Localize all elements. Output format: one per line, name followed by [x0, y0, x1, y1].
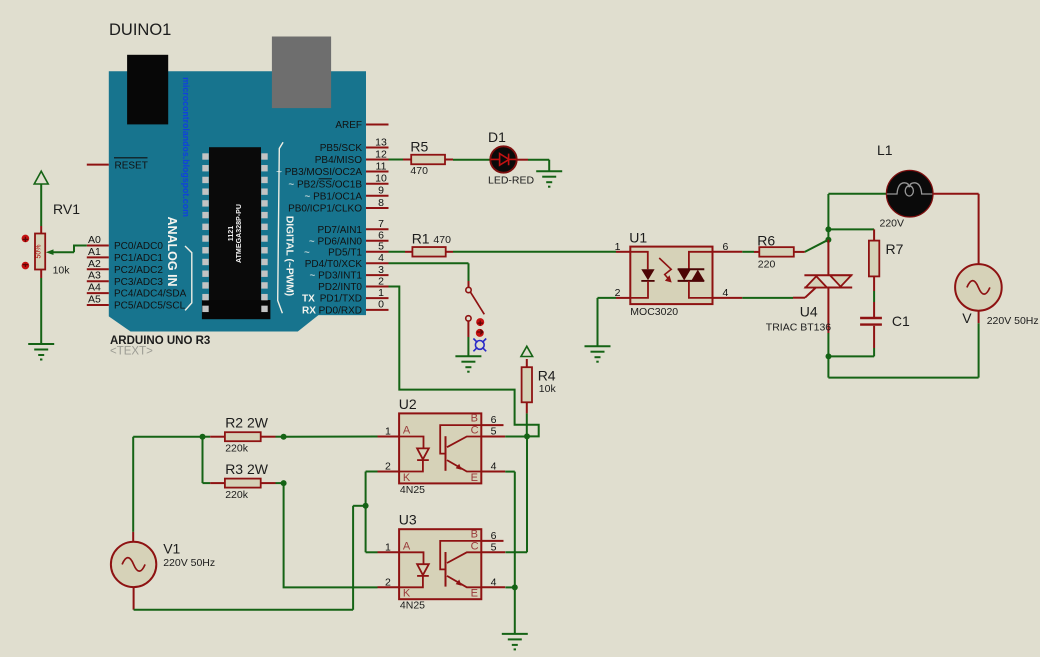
svg-text:C: C: [471, 540, 479, 552]
svg-text:A2: A2: [88, 258, 101, 270]
svg-text:microcontrolandos.blogspot.com: microcontrolandos.blogspot.com: [181, 77, 191, 217]
svg-text:ANALOG IN: ANALOG IN: [165, 216, 179, 286]
svg-text:R2 2W: R2 2W: [225, 415, 269, 431]
svg-text:1: 1: [385, 426, 391, 438]
svg-text:R3 2W: R3 2W: [225, 461, 269, 477]
svg-text:470: 470: [410, 165, 428, 177]
svg-text:2: 2: [385, 576, 391, 588]
svg-text:4: 4: [491, 576, 497, 588]
svg-text:220V: 220V: [880, 218, 905, 230]
svg-text:RESET: RESET: [115, 161, 148, 172]
svg-text:RV1: RV1: [53, 201, 80, 217]
svg-text:B: B: [471, 529, 478, 541]
svg-text:10: 10: [375, 173, 387, 185]
svg-text:PC5/ADC5/SCL: PC5/ADC5/SCL: [114, 301, 186, 312]
svg-text:A3: A3: [88, 270, 101, 282]
svg-text:4: 4: [378, 252, 384, 264]
svg-text:6: 6: [491, 530, 497, 542]
svg-text:~ PD6/AIN0: ~ PD6/AIN0: [309, 236, 363, 247]
svg-text:PD7/AIN1: PD7/AIN1: [318, 225, 363, 236]
svg-text:PB0/ICP1/CLKO: PB0/ICP1/CLKO: [288, 204, 362, 215]
svg-text:TX: TX: [302, 294, 315, 305]
svg-text:PC3/ADC3: PC3/ADC3: [114, 277, 163, 288]
svg-text:11: 11: [376, 160, 387, 172]
svg-text:PD2/INT0: PD2/INT0: [318, 282, 362, 293]
svg-text:470: 470: [433, 234, 451, 246]
svg-text:3: 3: [378, 264, 384, 276]
svg-text:A4: A4: [88, 282, 101, 294]
svg-text:PD1/TXD: PD1/TXD: [320, 294, 362, 305]
svg-text:MOC3020: MOC3020: [630, 306, 678, 318]
svg-text:5: 5: [491, 542, 497, 554]
svg-text:DUINO1: DUINO1: [109, 21, 171, 39]
svg-text:U4: U4: [800, 303, 818, 319]
svg-text:DIGITAL (~PWM): DIGITAL (~PWM): [284, 216, 295, 296]
svg-text:<TEXT>: <TEXT>: [110, 346, 153, 358]
svg-text:1121: 1121: [227, 226, 235, 241]
svg-text:6: 6: [723, 241, 729, 253]
svg-text:C1: C1: [892, 313, 910, 329]
svg-text:A5: A5: [88, 294, 101, 306]
svg-text:5: 5: [491, 426, 497, 438]
svg-text:PC0/ADC0: PC0/ADC0: [114, 241, 163, 252]
svg-text:U3: U3: [399, 512, 417, 528]
svg-text:TRIAC BT136: TRIAC BT136: [766, 321, 832, 333]
svg-text:ATMEGA328P-PU: ATMEGA328P-PU: [235, 204, 243, 263]
svg-text:A0: A0: [88, 234, 101, 246]
svg-text:PD0/RXD: PD0/RXD: [319, 306, 362, 317]
svg-text:1: 1: [378, 287, 384, 299]
svg-text:220V 50Hz: 220V 50Hz: [987, 315, 1039, 327]
svg-text:5: 5: [378, 241, 384, 253]
svg-text:R1: R1: [412, 231, 430, 247]
svg-text:D1: D1: [488, 129, 506, 145]
svg-text:220k: 220k: [225, 443, 249, 455]
svg-text:4N25: 4N25: [400, 600, 425, 612]
svg-text:V1: V1: [163, 541, 180, 557]
svg-text:220k: 220k: [225, 489, 249, 501]
svg-text:1: 1: [385, 541, 391, 553]
svg-text:PB5/SCK: PB5/SCK: [320, 143, 363, 154]
svg-text:B: B: [471, 413, 478, 425]
svg-text:9: 9: [378, 185, 384, 197]
svg-text:4: 4: [491, 461, 497, 473]
svg-text:R4: R4: [538, 367, 556, 383]
svg-text:R7: R7: [886, 241, 904, 257]
svg-text:A1: A1: [88, 246, 101, 258]
svg-text:K: K: [403, 588, 411, 600]
svg-text:6: 6: [491, 414, 497, 426]
svg-text:12: 12: [375, 148, 387, 160]
svg-text:13: 13: [375, 136, 387, 148]
svg-text:~ PB3/MOSI/OC2A: ~ PB3/MOSI/OC2A: [276, 167, 362, 178]
svg-text:L1: L1: [877, 142, 893, 158]
svg-text:U1: U1: [629, 230, 647, 246]
svg-text:4: 4: [723, 287, 729, 299]
svg-text:1: 1: [615, 241, 621, 253]
svg-text:~: ~: [304, 247, 310, 258]
svg-text:RX: RX: [302, 306, 316, 317]
svg-text:~ PD3/INT1: ~ PD3/INT1: [309, 271, 362, 282]
svg-text:PC4/ADC4/SDA: PC4/ADC4/SDA: [114, 289, 187, 300]
svg-text:U2: U2: [399, 396, 417, 412]
svg-text:PB4/MISO: PB4/MISO: [315, 155, 362, 166]
svg-text:4N25: 4N25: [400, 484, 425, 496]
svg-text:220V 50Hz: 220V 50Hz: [163, 557, 215, 569]
svg-text:8: 8: [378, 197, 384, 209]
svg-text:AREF: AREF: [335, 120, 362, 131]
svg-text:C: C: [471, 425, 479, 437]
svg-text:E: E: [471, 472, 478, 484]
svg-text:PD5/T1: PD5/T1: [328, 247, 362, 258]
svg-text:~ PB2/SS/OC1B: ~ PB2/SS/OC1B: [288, 179, 362, 190]
svg-text:10k: 10k: [53, 265, 71, 277]
svg-text:50%: 50%: [35, 244, 42, 258]
svg-text:PC1/ADC1: PC1/ADC1: [114, 253, 163, 264]
svg-text:A: A: [403, 540, 411, 552]
svg-text:~ PB1/OC1A: ~ PB1/OC1A: [304, 191, 362, 202]
svg-text:K: K: [403, 472, 411, 484]
svg-text:0: 0: [378, 299, 384, 311]
svg-text:A: A: [403, 425, 411, 437]
svg-text:220: 220: [758, 259, 776, 271]
svg-text:10k: 10k: [539, 383, 557, 395]
svg-text:2: 2: [385, 461, 391, 473]
svg-text:PD4/T0/XCK: PD4/T0/XCK: [305, 259, 363, 270]
svg-text:R5: R5: [410, 138, 428, 154]
svg-text:7: 7: [378, 218, 384, 230]
svg-text:E: E: [471, 588, 478, 600]
svg-text:LED-RED: LED-RED: [488, 174, 535, 186]
svg-text:2: 2: [378, 275, 384, 287]
svg-text:V: V: [962, 310, 972, 326]
svg-text:PC2/ADC2: PC2/ADC2: [114, 265, 163, 276]
svg-text:R6: R6: [757, 232, 775, 248]
